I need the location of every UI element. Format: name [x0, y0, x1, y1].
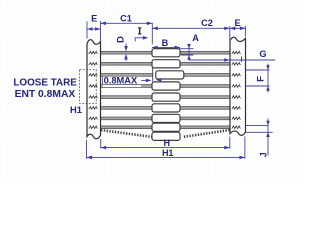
wire lead 5 left	[101, 96, 153, 99]
extension line component edge top	[151, 23, 153, 45]
wire lead 1 left	[101, 51, 153, 54]
adhesive hatch right tape lead5	[232, 96, 241, 99]
dimension J extension lines	[246, 125, 273, 132]
adhesive hatch right tape lead3	[232, 74, 241, 77]
dimension E right line	[230, 27, 246, 29]
dimension C1 line	[101, 22, 153, 24]
dimension E left line	[87, 28, 101, 30]
dimension J line and arrows	[267, 119, 269, 156]
component body 1	[152, 49, 180, 57]
wire lead 7 right	[180, 117, 230, 120]
dimension B line	[152, 46, 180, 48]
wire lead 3 left (displaced component)	[101, 74, 153, 77]
dimension F arrows	[267, 64, 269, 93]
svg-text:E: E	[91, 13, 97, 23]
svg-text:D: D	[115, 36, 126, 43]
svg-text:A: A	[192, 33, 199, 43]
adhesive hatch left tape lead8	[89, 126, 98, 129]
adhesive hatch left tape lead7	[89, 117, 98, 120]
svg-text:H: H	[164, 138, 171, 148]
dimension H extension lines	[101, 137, 230, 149]
wire lead 6 left	[101, 107, 153, 110]
component body 2	[152, 60, 180, 68]
adhesive hatch right tape lead2	[232, 62, 241, 65]
note 0.8MAX white box	[103, 77, 141, 87]
wire lead 3 right	[184, 74, 230, 77]
adhesive hatch left tape lead2	[89, 62, 98, 65]
adhesive hatch right tape lead8	[232, 126, 241, 129]
svg-text:LOOSE TARE: LOOSE TARE	[13, 77, 77, 88]
wire lead 8 right	[180, 126, 230, 129]
leader 0.8MAX arrow	[141, 79, 146, 81]
dimension E right extension lines	[230, 26, 246, 40]
svg-text:J: J	[259, 152, 269, 157]
dimension F extension lines	[246, 70, 270, 86]
dimension H1 extension lines	[87, 137, 245, 159]
wire lead 4 left	[101, 85, 153, 88]
dimension E left arrows	[87, 27, 101, 31]
svg-text:B: B	[162, 38, 169, 48]
dimension H1 arrows	[87, 156, 245, 160]
adhesive hatch left tape lead3	[89, 74, 98, 77]
dimension G arrow	[224, 58, 230, 62]
dimension B arrows	[152, 46, 180, 50]
component body 6	[152, 104, 180, 112]
component body 3 displaced	[156, 71, 184, 79]
dimension C2 arrows	[152, 27, 230, 31]
svg-text:E: E	[235, 18, 241, 28]
svg-text:ENT 0.8MAX: ENT 0.8MAX	[15, 89, 76, 100]
dimension A ticks	[179, 44, 194, 60]
svg-text:C2: C2	[201, 18, 213, 28]
arrow at displaced body edge	[156, 78, 162, 82]
wire lead 8 left	[101, 126, 153, 129]
wire lead 1 right	[180, 51, 230, 54]
svg-text:F: F	[255, 76, 266, 82]
wire lead 7 left	[101, 117, 153, 120]
wire lead 5 right	[180, 96, 230, 99]
left tape	[87, 40, 101, 139]
loose component dotted lead right	[184, 130, 230, 137]
adhesive hatch left tape lead1	[89, 51, 98, 54]
component body 5	[152, 93, 180, 101]
dimension E left extension lines	[87, 21, 101, 40]
nominal body edge reference line	[152, 67, 154, 82]
dimension A arrows	[187, 44, 191, 60]
dimension H arrows	[101, 146, 230, 150]
component body 7	[152, 114, 180, 122]
loose component dotted lead left	[101, 130, 152, 137]
wire lead 6 right	[180, 107, 230, 110]
svg-text:C1: C1	[120, 13, 132, 23]
label I serif	[139, 28, 141, 33]
dimension H line	[101, 147, 230, 149]
adhesive hatch right tape lead1	[232, 51, 241, 54]
dimension I leader	[135, 38, 146, 42]
svg-text:G: G	[259, 49, 266, 59]
adhesive hatch right tape lead7	[232, 117, 241, 120]
loose zone dashed box	[80, 70, 97, 104]
dimension D arrows	[125, 44, 127, 62]
wire lead 2 left	[101, 62, 153, 65]
component body 8	[152, 123, 180, 131]
component body 4	[152, 82, 180, 90]
right tape	[230, 37, 246, 135]
wire lead 4 right	[180, 85, 230, 88]
dimension H1 line	[87, 156, 245, 158]
component body 9 loose	[152, 132, 180, 140]
svg-text:0.8MAX: 0.8MAX	[104, 75, 138, 85]
adhesive hatch right tape lead6	[232, 107, 241, 110]
svg-text:H1: H1	[70, 104, 82, 115]
adhesive hatch left tape lead5	[89, 96, 98, 99]
adhesive hatch right tape lead4	[232, 85, 241, 88]
adhesive hatch left tape lead4	[89, 85, 98, 88]
dimension G tick	[240, 56, 242, 62]
dimension G line	[189, 59, 275, 61]
dimension C1 arrows	[101, 22, 153, 26]
dimension C2 line	[152, 27, 230, 29]
dimension E right arrows	[230, 27, 246, 31]
svg-text:H1: H1	[162, 148, 174, 158]
adhesive hatch left tape lead6	[89, 107, 98, 110]
wire lead 2 right	[180, 62, 230, 65]
